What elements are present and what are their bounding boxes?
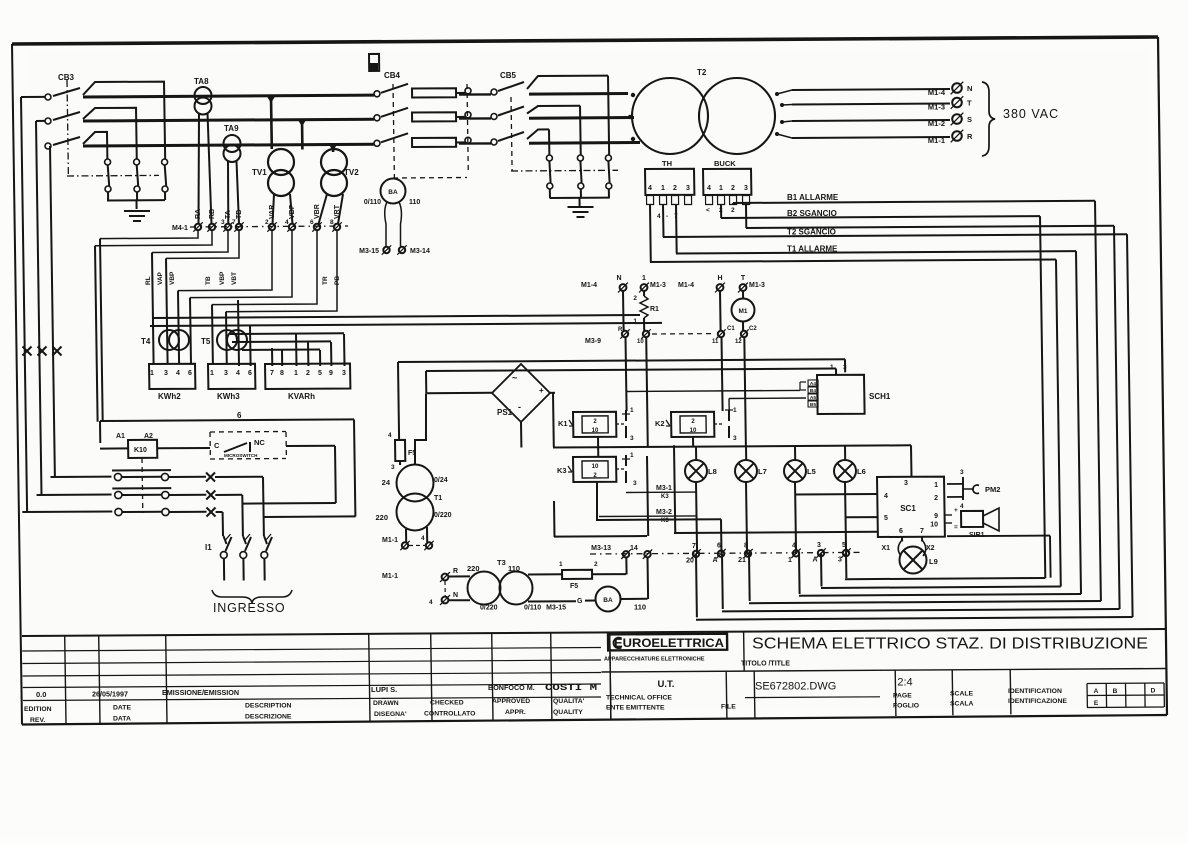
svg-text:1: 1	[630, 452, 634, 459]
svg-text:CHECKED: CHECKED	[430, 700, 464, 707]
svg-text:CONTROLLATO: CONTROLLATO	[424, 711, 475, 718]
svg-text:10: 10	[637, 339, 644, 345]
svg-text:K10: K10	[134, 447, 147, 454]
svg-text:TA: TA	[225, 210, 232, 219]
svg-text:M3-1: M3-1	[656, 485, 672, 492]
svg-text:0/220: 0/220	[434, 512, 452, 519]
svg-text:4: 4	[429, 599, 433, 606]
svg-text:M1-3: M1-3	[650, 282, 666, 289]
svg-text:R: R	[967, 132, 973, 141]
svg-text:10: 10	[690, 428, 697, 434]
svg-text:PS1: PS1	[497, 408, 513, 417]
svg-text:B1 ALLARME: B1 ALLARME	[787, 193, 839, 202]
svg-text:3: 3	[221, 219, 225, 226]
svg-text:4: 4	[421, 535, 425, 542]
svg-text:IDENTIFICAZIONE: IDENTIFICAZIONE	[1008, 698, 1067, 705]
svg-text:KWh3: KWh3	[217, 392, 240, 401]
svg-text:A: A	[712, 557, 717, 564]
svg-text:D: D	[1151, 688, 1156, 695]
svg-text:TB: TB	[236, 210, 243, 219]
svg-text:NC: NC	[254, 438, 265, 447]
svg-text:4: 4	[176, 370, 180, 377]
svg-text:14: 14	[630, 545, 638, 552]
svg-text:T1: T1	[434, 495, 442, 502]
svg-text:5: 5	[884, 515, 888, 522]
svg-text:+: +	[954, 507, 958, 514]
svg-text:APPROVED: APPROVED	[492, 698, 530, 705]
svg-text:T1 ALLARME: T1 ALLARME	[787, 245, 838, 254]
svg-text:1: 1	[719, 185, 723, 192]
svg-text:VAP: VAP	[157, 271, 164, 285]
svg-text:K1: K1	[558, 419, 568, 428]
svg-text:L6: L6	[857, 467, 866, 476]
svg-text:M3-15: M3-15	[359, 248, 379, 255]
svg-text:VBR: VBR	[314, 204, 321, 219]
svg-text:TB: TB	[205, 276, 212, 285]
svg-text:10: 10	[930, 522, 938, 529]
svg-text:2: 2	[934, 495, 938, 502]
svg-text:X2: X2	[926, 545, 935, 552]
svg-text:6: 6	[237, 411, 242, 420]
svg-text:~: ~	[527, 366, 532, 376]
svg-text:PAGE: PAGE	[893, 693, 912, 700]
svg-text:3: 3	[817, 542, 821, 549]
svg-text:T3: T3	[497, 558, 506, 567]
svg-text:T: T	[741, 275, 746, 282]
svg-text:20: 20	[686, 557, 694, 564]
svg-text:CB5: CB5	[500, 71, 517, 80]
svg-text:4: 4	[648, 185, 652, 192]
svg-text:11: 11	[712, 339, 719, 345]
svg-text:5: 5	[318, 370, 322, 377]
svg-text:1: 1	[559, 561, 563, 568]
svg-text:1: 1	[788, 557, 792, 564]
svg-text:12: 12	[735, 339, 742, 345]
svg-text:REV.: REV.	[30, 717, 45, 724]
svg-text:B: B	[1113, 688, 1118, 695]
svg-text:BA: BA	[388, 189, 398, 196]
svg-text:110: 110	[634, 603, 646, 612]
svg-text:TH: TH	[662, 159, 672, 168]
svg-text:RA: RA	[195, 209, 202, 219]
svg-text:T4: T4	[141, 337, 151, 346]
svg-text:5: 5	[842, 542, 846, 549]
svg-text:M4-1: M4-1	[172, 225, 188, 232]
svg-text:DESCRIZIONE: DESCRIZIONE	[245, 714, 292, 721]
svg-text:EMISSIONE/EMISSION: EMISSIONE/EMISSION	[162, 688, 239, 697]
svg-text:7: 7	[692, 543, 696, 550]
svg-text:C: C	[214, 441, 220, 450]
svg-text:6: 6	[717, 543, 721, 550]
svg-text:3: 3	[342, 370, 346, 377]
svg-text:N: N	[616, 275, 621, 282]
svg-text:L7: L7	[758, 467, 767, 476]
svg-text:7: 7	[232, 219, 236, 226]
svg-text:24: 24	[382, 478, 391, 487]
svg-text:L8: L8	[708, 467, 717, 476]
svg-text:220: 220	[375, 513, 388, 522]
svg-text:2: 2	[731, 207, 735, 214]
svg-text:M1-3: M1-3	[749, 282, 765, 289]
svg-text:L9: L9	[929, 557, 938, 566]
svg-text:1: 1	[934, 482, 938, 489]
svg-text:TV1: TV1	[252, 168, 267, 177]
svg-text:K3: K3	[661, 518, 669, 524]
svg-text:PM2: PM2	[985, 485, 1000, 494]
svg-text:2: 2	[594, 561, 598, 568]
svg-text:21: 21	[738, 557, 746, 564]
svg-text:A: A	[1094, 688, 1099, 695]
svg-text:M3-14: M3-14	[410, 248, 430, 255]
svg-text:1: 1	[830, 364, 834, 371]
svg-text:110: 110	[409, 199, 420, 206]
svg-text:1: 1	[733, 407, 737, 414]
svg-text:3: 3	[633, 480, 637, 487]
svg-text:-: -	[518, 402, 521, 412]
svg-text:TECHNICAL OFFICE: TECHNICAL OFFICE	[606, 694, 672, 701]
svg-text:A: A	[812, 557, 817, 564]
svg-text:M1-4: M1-4	[928, 88, 946, 97]
svg-text:TA9: TA9	[224, 124, 239, 133]
svg-text:26/05/1997: 26/05/1997	[92, 690, 128, 699]
svg-text:9: 9	[934, 513, 938, 520]
svg-text:X1: X1	[881, 545, 890, 552]
svg-text:SC1: SC1	[900, 504, 916, 513]
svg-text:2: 2	[306, 370, 310, 377]
svg-text:3: 3	[843, 364, 847, 371]
svg-text:--: --	[201, 94, 205, 100]
svg-text:6: 6	[188, 370, 192, 377]
svg-text:1: 1	[633, 318, 637, 325]
svg-text:0/110: 0/110	[364, 199, 381, 206]
svg-text:2: 2	[265, 219, 269, 226]
svg-text:4: 4	[960, 503, 964, 510]
svg-text:8: 8	[744, 543, 748, 550]
svg-text:3: 3	[744, 185, 748, 192]
svg-text:1: 1	[630, 407, 634, 414]
svg-text:RB: RB	[209, 209, 216, 219]
svg-text:M3-13: M3-13	[591, 545, 611, 552]
svg-text:DESCRIPTION: DESCRIPTION	[245, 703, 292, 710]
svg-text:9: 9	[329, 370, 333, 377]
svg-text:I1: I1	[205, 543, 212, 552]
svg-text:KVARh: KVARh	[288, 392, 315, 401]
svg-text:4: 4	[707, 185, 711, 192]
svg-text:M1-3: M1-3	[928, 103, 945, 112]
svg-text:1: 1	[642, 275, 646, 282]
svg-text:DATE: DATE	[113, 704, 131, 711]
svg-text:3: 3	[164, 370, 168, 377]
svg-text:A5: A5	[810, 395, 816, 401]
svg-text:PB: PB	[334, 276, 341, 285]
svg-text:0/220: 0/220	[480, 605, 498, 612]
svg-text:M3-2: M3-2	[656, 509, 672, 516]
svg-text:C2: C2	[749, 326, 757, 332]
svg-text:DRAWN: DRAWN	[373, 700, 399, 707]
svg-text:M1-4: M1-4	[581, 282, 597, 289]
svg-text:SE672802.DWG: SE672802.DWG	[755, 681, 836, 693]
svg-text:0.0: 0.0	[36, 690, 46, 699]
svg-text:<: <	[706, 207, 710, 214]
svg-text:TV2: TV2	[344, 168, 359, 177]
svg-text:SCALA: SCALA	[950, 700, 974, 707]
svg-text:T5: T5	[201, 337, 211, 346]
svg-text:VBT: VBT	[231, 272, 238, 285]
svg-text:2: 2	[731, 185, 735, 192]
svg-text:K2: K2	[655, 419, 665, 428]
svg-text:APPARECCHIATURE ELETTRONICHE: APPARECCHIATURE ELETTRONICHE	[604, 656, 705, 662]
svg-text:B5: B5	[810, 402, 816, 408]
svg-text:4: 4	[792, 542, 796, 549]
svg-text:B4: B4	[810, 388, 816, 394]
svg-text:K3: K3	[557, 466, 567, 475]
svg-text:4: 4	[657, 213, 661, 220]
svg-text:M3-15: M3-15	[546, 605, 566, 612]
svg-text:IDENTIFICATION: IDENTIFICATION	[1008, 688, 1062, 695]
svg-text:+: +	[539, 386, 544, 395]
svg-text:M3-9: M3-9	[585, 338, 601, 345]
svg-text:INGRESSO: INGRESSO	[213, 601, 285, 615]
svg-text:2: 2	[633, 295, 637, 302]
svg-text:6: 6	[248, 370, 252, 377]
svg-text:LUPI S.: LUPI S.	[371, 685, 397, 694]
svg-text:S: S	[967, 115, 972, 124]
svg-text:VRT: VRT	[334, 204, 341, 219]
svg-text:RL: RL	[145, 276, 152, 285]
svg-text:0/110: 0/110	[524, 605, 541, 612]
svg-text:M1-1: M1-1	[928, 136, 945, 145]
svg-text:FILE: FILE	[721, 704, 736, 711]
svg-text:K3: K3	[661, 494, 669, 500]
svg-text:M1-1: M1-1	[382, 573, 398, 580]
svg-text:10: 10	[592, 464, 599, 470]
svg-text:10: 10	[592, 428, 599, 434]
svg-text:3: 3	[960, 469, 964, 476]
svg-text:L5: L5	[807, 467, 816, 476]
svg-text:BONFOCO M.: BONFOCO M.	[488, 683, 535, 692]
svg-text:1: 1	[294, 370, 298, 377]
svg-text:VBP: VBP	[219, 271, 226, 285]
svg-text:4: 4	[285, 219, 289, 226]
svg-text:110: 110	[508, 564, 520, 573]
svg-text:QUALITY: QUALITY	[553, 709, 583, 716]
svg-text:=: =	[954, 524, 958, 531]
svg-text:7: 7	[270, 370, 274, 377]
svg-text:FOGLIO: FOGLIO	[893, 703, 919, 710]
svg-text:3: 3	[686, 185, 690, 192]
svg-text:6: 6	[310, 219, 314, 226]
svg-text:3: 3	[838, 557, 842, 564]
svg-text:BUCK: BUCK	[714, 159, 736, 168]
svg-text:380 VAC: 380 VAC	[1003, 107, 1059, 121]
svg-text:APPR.: APPR.	[505, 709, 526, 716]
svg-text:TITOLO /TITLE: TITOLO /TITLE	[741, 661, 790, 668]
svg-text:3: 3	[733, 435, 737, 442]
svg-text:4: 4	[236, 370, 240, 377]
svg-text:EDITION: EDITION	[24, 706, 52, 713]
svg-text:1: 1	[150, 370, 154, 377]
svg-text:3: 3	[391, 464, 395, 471]
svg-text:2: 2	[673, 185, 677, 192]
svg-text:TA8: TA8	[194, 77, 209, 86]
svg-text:1: 1	[210, 370, 214, 377]
svg-text:VBP: VBP	[169, 271, 176, 285]
svg-text:3: 3	[904, 480, 908, 487]
svg-text:T2 SGANCIO: T2 SGANCIO	[787, 228, 836, 237]
svg-text:8: 8	[280, 370, 284, 377]
svg-text:~: ~	[512, 373, 517, 383]
svg-text:3: 3	[630, 435, 634, 442]
svg-text:F5: F5	[570, 583, 578, 590]
svg-text:T: T	[967, 99, 972, 108]
svg-text:R1: R1	[618, 327, 626, 333]
svg-text:QUALITA': QUALITA'	[553, 698, 585, 705]
svg-text:-: -	[666, 213, 668, 220]
svg-text:C1: C1	[727, 326, 735, 332]
svg-text:MICROSWITCH: MICROSWITCH	[224, 453, 258, 458]
svg-text:CB3: CB3	[58, 73, 75, 82]
svg-text:TR: TR	[322, 276, 329, 285]
svg-text:4: 4	[388, 432, 392, 439]
svg-text:B2 SGANCIO: B2 SGANCIO	[787, 209, 837, 218]
svg-text:ENTE EMITTENTE: ENTE EMITTENTE	[606, 704, 665, 711]
svg-text:COSTI M: COSTI M	[545, 683, 597, 693]
svg-text:H: H	[717, 275, 722, 282]
svg-text:G: G	[577, 598, 583, 605]
svg-text:7: 7	[920, 528, 924, 535]
svg-text:KWh2: KWh2	[158, 392, 181, 401]
svg-text:BA: BA	[603, 597, 613, 604]
svg-text:CB4: CB4	[384, 71, 401, 80]
svg-text:220: 220	[467, 564, 480, 573]
svg-text:R: R	[453, 568, 458, 575]
svg-text:SCALE: SCALE	[950, 690, 974, 697]
svg-text:VAR: VAR	[269, 205, 276, 219]
svg-text:DATA: DATA	[113, 715, 131, 722]
svg-text:N: N	[967, 84, 972, 93]
svg-text:M1: M1	[738, 308, 747, 315]
svg-text:EUROELETTRICA: EUROELETTRICA	[614, 638, 724, 650]
svg-text:SCH1: SCH1	[869, 392, 891, 401]
svg-text:VBP: VBP	[289, 204, 296, 219]
svg-text:4: 4	[884, 493, 888, 500]
svg-text:DISEGNA': DISEGNA'	[374, 711, 407, 718]
svg-text:R1: R1	[650, 306, 659, 313]
svg-text:1: 1	[661, 185, 665, 192]
svg-text:M1-1: M1-1	[382, 537, 398, 544]
svg-text:T2: T2	[697, 68, 707, 77]
svg-text:M1-4: M1-4	[678, 282, 694, 289]
svg-text:0/24: 0/24	[434, 477, 448, 484]
svg-text:M1-2: M1-2	[928, 119, 945, 128]
svg-text:A4: A4	[810, 381, 816, 387]
svg-text:SCHEMA ELETTRICO STAZ. DI: SCHEMA ELETTRICO STAZ. DI DISTRIBUZIONE	[752, 636, 1148, 653]
svg-text:E: E	[1094, 700, 1099, 707]
svg-text:3: 3	[224, 370, 228, 377]
svg-text:A1: A1	[116, 433, 125, 440]
svg-text:N: N	[453, 592, 458, 599]
svg-text:8: 8	[330, 219, 334, 226]
svg-text:2:4: 2:4	[897, 677, 912, 689]
svg-text:U.T.: U.T.	[658, 679, 675, 690]
svg-text:6: 6	[899, 528, 903, 535]
